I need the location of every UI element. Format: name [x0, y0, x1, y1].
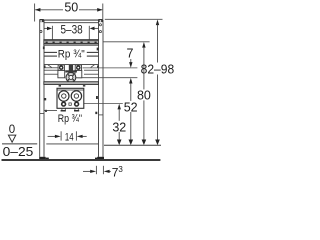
svg-text:Rp ¾": Rp ¾"	[58, 113, 82, 125]
svg-text:82–98: 82–98	[141, 62, 175, 76]
svg-text:52: 52	[124, 101, 138, 115]
svg-text:Rp ¾": Rp ¾"	[58, 49, 85, 61]
svg-text:32: 32	[112, 121, 126, 135]
svg-text:14: 14	[65, 132, 74, 144]
svg-text:0–25: 0–25	[3, 145, 34, 159]
svg-text:7: 7	[127, 47, 134, 61]
svg-text:50: 50	[64, 0, 78, 14]
svg-text:80: 80	[137, 88, 151, 102]
svg-text:0: 0	[9, 124, 15, 136]
svg-text:5–38: 5–38	[61, 23, 83, 37]
svg-text:3: 3	[118, 165, 123, 174]
